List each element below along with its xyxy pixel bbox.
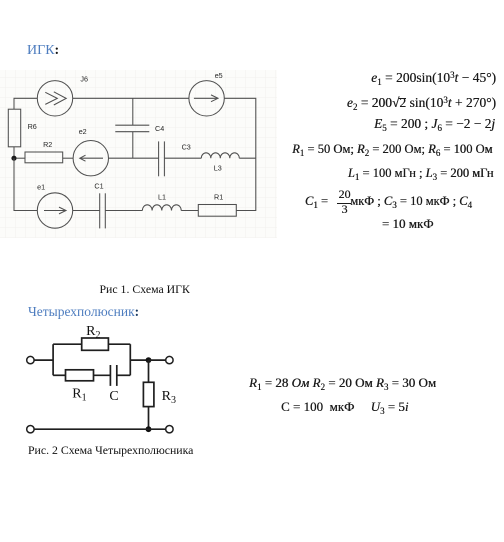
- wire node B to out+: [149, 359, 166, 361]
- wire bottom branch left: [53, 374, 65, 376]
- capacitor C: [109, 365, 111, 386]
- wire node B down to R3: [148, 360, 150, 382]
- wire C1 to L1: [105, 210, 142, 212]
- equations block 1: [371, 70, 496, 86]
- terminal in-: [27, 426, 34, 433]
- wire to node B: [130, 359, 148, 361]
- wire top-left corner: [14, 98, 37, 109]
- grid background of schematic 1: [0, 70, 277, 238]
- inductor L3: [201, 153, 239, 158]
- wire node A to R2: [17, 157, 25, 159]
- voltage source e1: [37, 193, 72, 228]
- wire L3 to right rail: [239, 157, 256, 159]
- wire R1' to C: [94, 374, 111, 376]
- svg-text:C: C: [109, 389, 118, 404]
- svg-text:R2: R2: [43, 140, 52, 149]
- svg-text:R1: R1: [72, 387, 86, 404]
- resistor R1': [66, 370, 94, 381]
- current source J6: [37, 81, 72, 116]
- resistor R3: [143, 382, 154, 406]
- svg-text:R3: R3: [162, 389, 176, 406]
- node A junction dot: [11, 156, 16, 161]
- svg-text:C3: C3: [182, 143, 191, 152]
- wire L1 to R1: [181, 210, 198, 212]
- capacitor C3: [158, 141, 160, 176]
- wire C to right split: [117, 374, 131, 376]
- node B junction dot: [146, 357, 152, 363]
- wire e2 to C3: [109, 157, 159, 159]
- resistor R2': [82, 338, 109, 350]
- node C junction dot: [146, 426, 152, 432]
- wire in+ to split: [34, 359, 53, 361]
- svg-text:e1: e1: [37, 183, 45, 192]
- svg-text:R1: R1: [214, 192, 223, 201]
- wire top branch right: [108, 343, 130, 345]
- caption figure 2: [28, 443, 193, 458]
- wire bottom rail: [34, 428, 166, 430]
- svg-text:J6: J6: [80, 75, 88, 84]
- capacitor C4: [132, 98, 134, 125]
- resistor R2: [25, 152, 63, 163]
- voltage source e2: [73, 141, 108, 176]
- wire right split vertical: [129, 344, 131, 375]
- wire node A down to bottom rail: [14, 158, 37, 210]
- inductor L1: [142, 205, 181, 211]
- wire C3 to L3: [164, 157, 201, 159]
- caption figure 1: [100, 282, 190, 297]
- wire J6 to C4 branch: [73, 97, 189, 99]
- voltage source e5: [189, 81, 224, 116]
- svg-text:L3: L3: [214, 164, 222, 173]
- wire right rail down: [236, 158, 256, 210]
- svg-text:C4: C4: [155, 124, 164, 133]
- formulas block 2: [249, 375, 436, 391]
- resistor R6: [8, 109, 20, 147]
- wire e1 to C1: [73, 210, 100, 212]
- svg-text:R6: R6: [28, 122, 37, 131]
- title chetyrekhpolyusnik: [28, 304, 139, 320]
- terminal in+: [27, 356, 34, 363]
- terminal out+: [166, 356, 173, 363]
- svg-text:R2: R2: [86, 324, 100, 341]
- resistor R1: [198, 205, 236, 217]
- wire R3 to node C: [148, 407, 150, 430]
- circuit 2 schematic: [27, 338, 173, 433]
- svg-text:L1: L1: [158, 193, 166, 202]
- wire R2 to e2: [63, 157, 73, 159]
- wire R6 to node A: [13, 147, 15, 158]
- svg-text:e2: e2: [79, 127, 87, 136]
- title IGK: [27, 43, 59, 59]
- terminal out-: [166, 426, 173, 433]
- wire e5 to right rail: [224, 98, 256, 158]
- capacitor C1: [99, 193, 101, 228]
- wire split vertical: [52, 344, 54, 375]
- svg-text:C1: C1: [94, 181, 103, 190]
- svg-text:e5: e5: [215, 71, 223, 80]
- wire top branch left: [53, 343, 82, 345]
